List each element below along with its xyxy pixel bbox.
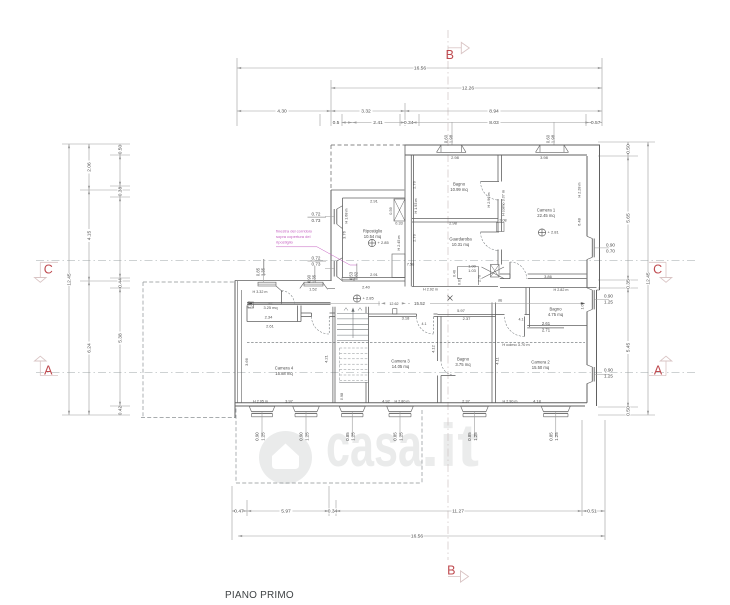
section line B vertical — [447, 30, 449, 560]
dim left d2 — [119, 155, 121, 186]
svg-text:H 3.32 m: H 3.32 m — [253, 290, 268, 294]
wall camera3 north — [369, 313, 417, 315]
svg-text:0.90: 0.90 — [606, 243, 615, 248]
dim 0.50 left d1 — [119, 144, 121, 155]
svg-text:B: B — [447, 564, 455, 578]
dim 0.42 left d7 — [119, 406, 121, 415]
svg-text:1.25: 1.25 — [554, 432, 559, 441]
svg-text:0.90: 0.90 — [299, 432, 304, 441]
dashed balcony rectangle bottom — [235, 409, 237, 484]
svg-text:1.25: 1.25 — [260, 432, 265, 441]
svg-text:C: C — [653, 262, 662, 276]
svg-text:1.25: 1.25 — [351, 432, 356, 441]
wall splay reveals corridor north — [276, 286, 283, 292]
svg-text:2.06: 2.06 — [87, 162, 93, 172]
dim 12.45 left overall — [68, 144, 70, 415]
dim 12.26 top main — [331, 87, 602, 89]
wall bagno3 top — [438, 314, 496, 316]
svg-text:3.75 mq: 3.75 mq — [455, 362, 471, 367]
wall stub camera4 door to stairs — [330, 312, 336, 314]
svg-text:4.92: 4.92 — [382, 399, 391, 404]
svg-text:16.56: 16.56 — [414, 66, 427, 72]
corridor ramp diagonal — [482, 267, 505, 279]
svg-text:2.91: 2.91 — [370, 198, 379, 203]
svg-text:12.26: 12.26 — [462, 86, 475, 92]
svg-text:0.72: 0.72 — [312, 255, 321, 260]
window W-right-2 (0.90/1.25) — [587, 288, 592, 290]
svg-text:2.76: 2.76 — [412, 180, 417, 189]
dim 5.38 left d6 — [119, 288, 121, 406]
svg-text:2.71: 2.71 — [542, 328, 551, 333]
svg-text:3.18: 3.18 — [402, 316, 411, 321]
svg-text:4.12: 4.12 — [431, 344, 436, 353]
svg-text:H 2.45 m: H 2.45 m — [397, 236, 401, 251]
svg-text:2.70: 2.70 — [478, 275, 482, 282]
svg-text:Camera 3: Camera 3 — [391, 359, 410, 364]
niche box wall camera1 — [497, 223, 505, 232]
dim 8.94 top c — [405, 110, 602, 112]
svg-text:0.46: 0.46 — [453, 270, 457, 277]
svg-text:2.76: 2.76 — [412, 233, 417, 242]
svg-text:10.54 mq: 10.54 mq — [364, 234, 382, 239]
svg-text:6.24: 6.24 — [87, 343, 93, 353]
level marker ripostiglio — [368, 239, 375, 246]
wall camera1 bottom — [500, 273, 510, 275]
dim 0.47 bot a — [232, 510, 247, 512]
shaft with X brace — [394, 199, 405, 221]
wall camera3-bagno vertical — [437, 316, 439, 361]
wall corridor north inner ledge — [328, 288, 335, 290]
svg-text:H colmo 3.70 m: H colmo 3.70 m — [502, 342, 529, 347]
wall corridor top middle-right — [412, 286, 498, 288]
svg-text:+ 2.85: + 2.85 — [378, 240, 390, 245]
window W-right-1 (0.90/0.70) — [587, 236, 592, 238]
wall wc box — [246, 306, 248, 322]
dim 5.65 right b — [627, 156, 629, 280]
level marker corridor — [353, 295, 360, 302]
svg-text:15.50 mq: 15.50 mq — [532, 365, 550, 370]
svg-text:5.38: 5.38 — [118, 333, 124, 343]
svg-text:2.98: 2.98 — [451, 155, 460, 160]
svg-text:2.41: 2.41 — [373, 120, 383, 126]
level marker camera1 — [538, 229, 545, 236]
svg-text:10.31 mq: 10.31 mq — [452, 242, 470, 247]
section marker A left — [40, 375, 58, 377]
wall bagno-guardaroba divider — [412, 218, 498, 220]
svg-text:12.45: 12.45 — [646, 272, 652, 285]
svg-text:3.32: 3.32 — [361, 109, 371, 115]
svg-text:Ripostiglio: Ripostiglio — [363, 229, 383, 234]
dim 0.44 left d5 — [119, 278, 121, 288]
svg-text:5.65: 5.65 — [626, 213, 632, 223]
svg-text:H 2.96 m: H 2.96 m — [487, 193, 491, 208]
wall outer left upper block — [330, 145, 332, 190]
dim 0.51 bot e — [582, 510, 605, 512]
svg-text:1.25: 1.25 — [604, 300, 613, 305]
svg-text:4.11: 4.11 — [495, 356, 500, 364]
door bagno 3.75 — [441, 375, 456, 377]
svg-text:0.34: 0.34 — [328, 509, 338, 515]
wall outer top — [331, 144, 405, 146]
svg-text:0.47: 0.47 — [234, 509, 244, 515]
svg-text:3.86: 3.86 — [544, 274, 553, 279]
svg-text:+ 2.81: + 2.81 — [548, 230, 560, 235]
svg-text:H 2.95 m: H 2.95 m — [253, 400, 268, 404]
svg-text:0.85: 0.85 — [467, 432, 472, 441]
extension line corridor west window — [263, 259, 265, 282]
svg-text:0.85: 0.85 — [345, 432, 350, 441]
svg-text:casa: casa — [326, 412, 422, 479]
door camera 4 — [328, 317, 330, 335]
svg-text:7.58: 7.58 — [407, 262, 415, 267]
svg-text:Camera 2: Camera 2 — [531, 360, 550, 365]
wall terrace upper-left divider — [331, 189, 404, 191]
wall corridor niche steps — [457, 267, 459, 279]
svg-text:A: A — [44, 363, 53, 377]
svg-text:0.38: 0.38 — [118, 186, 124, 196]
svg-text:A: A — [654, 363, 663, 377]
svg-text:ripostiglio: ripostiglio — [276, 240, 294, 245]
window W-top-1 (2.98) — [437, 146, 467, 154]
section line C horizontal — [36, 260, 696, 262]
dashed terrace rectangle left — [143, 281, 236, 283]
svg-text:B: B — [446, 48, 454, 62]
svg-text:H 2.92 m: H 2.92 m — [423, 288, 438, 292]
svg-text:2.34: 2.34 — [265, 314, 274, 319]
svg-text:3.66: 3.66 — [244, 357, 249, 366]
svg-text:0.57: 0.57 — [591, 120, 601, 126]
svg-text:8.94: 8.94 — [489, 109, 499, 115]
svg-text:3.25 mq: 3.25 mq — [263, 305, 277, 310]
wall corridor south edge — [247, 302, 331, 304]
dim 0.50 right a — [627, 142, 629, 156]
svg-text:2.40: 2.40 — [362, 285, 371, 290]
svg-text:0.70: 0.70 — [606, 249, 615, 254]
svg-text:3.97: 3.97 — [285, 399, 294, 404]
svg-text:16.56: 16.56 — [411, 534, 424, 540]
window W-right-3 (0.90/1.25) — [587, 365, 592, 367]
svg-text:H 2.90 m: H 2.90 m — [503, 400, 518, 404]
svg-text:3.98: 3.98 — [540, 155, 549, 160]
window W-top-2 (3.98) — [536, 146, 569, 154]
svg-text:0.07: 0.07 — [458, 278, 462, 285]
svg-text:4.1: 4.1 — [519, 318, 524, 322]
svg-text:0.85: 0.85 — [393, 432, 398, 441]
door camera1 from corridor — [509, 262, 511, 279]
svg-text:0.59: 0.59 — [389, 207, 393, 214]
svg-text:2.37: 2.37 — [463, 316, 472, 321]
dim 0.5 top d1 — [342, 122, 353, 124]
svg-text:+ 2.85: + 2.85 — [363, 296, 375, 301]
shaft X box guardaroba corner — [491, 265, 500, 278]
wall ripostiglio top — [343, 197, 406, 199]
dim 2.41 top d2 — [352, 122, 405, 124]
svg-text:4.30: 4.30 — [277, 109, 287, 115]
dim left d4 — [119, 197, 121, 278]
svg-text:H colmo 3.07 m: H colmo 3.07 m — [502, 190, 506, 216]
svg-text:2.98: 2.98 — [449, 221, 458, 226]
svg-text:15.88 mq: 15.88 mq — [275, 371, 293, 376]
svg-text:4.75 mq: 4.75 mq — [548, 312, 564, 317]
svg-text:1.35: 1.35 — [312, 274, 317, 283]
annotation leader line magenta — [276, 246, 317, 248]
svg-text:H 1.68 m: H 1.68 m — [345, 209, 349, 224]
dim 0.34 bot c — [329, 510, 336, 512]
svg-text:Camera 1: Camera 1 — [537, 208, 556, 213]
svg-text:0.60: 0.60 — [545, 134, 550, 143]
dashed ridge line H colmo — [247, 342, 585, 344]
svg-text:0.60: 0.60 — [443, 134, 448, 143]
x mark corridor — [448, 296, 453, 301]
svg-text:10.99 mq: 10.99 mq — [450, 187, 468, 192]
svg-text:4.15: 4.15 — [87, 230, 93, 240]
wall stub wc to camera4 door — [301, 312, 312, 314]
svg-text:12.45: 12.45 — [67, 273, 73, 286]
svg-text:2.37: 2.37 — [462, 399, 471, 404]
small window marks ripostiglio bottom wall — [341, 278, 343, 282]
stairs treads upper solid — [337, 313, 369, 315]
dim 2.06 left a — [88, 144, 90, 190]
svg-text:0.73: 0.73 — [312, 218, 321, 223]
svg-text:1.52: 1.52 — [309, 287, 318, 292]
svg-text:Guardaroba: Guardaroba — [449, 237, 472, 242]
svg-text:0.98: 0.98 — [340, 393, 344, 400]
svg-text:1.98: 1.98 — [551, 134, 556, 143]
svg-text:1.98: 1.98 — [449, 134, 454, 143]
wall bagno3-camera2 vertical — [491, 303, 493, 403]
svg-text:8.03: 8.03 — [489, 120, 499, 126]
svg-text:2.08: 2.08 — [499, 219, 506, 223]
dim 5.45 right d — [627, 288, 629, 407]
svg-text:2.91: 2.91 — [370, 272, 379, 277]
wall bagno4 bottom shelf — [527, 325, 587, 327]
extension lines right — [598, 141, 655, 143]
section marker B bottom — [448, 576, 461, 578]
svg-text:5.97: 5.97 — [457, 308, 466, 313]
svg-text:0.50: 0.50 — [626, 144, 632, 154]
svg-text:dis: dis — [498, 299, 503, 303]
window W-bot-2 — [293, 406, 295, 411]
svg-text:PIANO PRIMO: PIANO PRIMO — [225, 590, 294, 600]
wall camera1 door jamb — [509, 274, 511, 279]
dim 12.45 right overall — [647, 142, 649, 415]
svg-text:finestra del corridoio: finestra del corridoio — [276, 228, 313, 233]
svg-text:1.40: 1.40 — [248, 301, 252, 308]
wall ripostiglio bottom — [342, 277, 405, 279]
door wc from corridor — [281, 291, 283, 305]
wall outer left lower block — [234, 281, 236, 418]
svg-text:Camera 4: Camera 4 — [275, 366, 294, 371]
wc corner hatched box — [248, 302, 254, 308]
dim 6.24 left c — [88, 281, 90, 415]
dim 11.27 bot d — [336, 510, 582, 512]
label 1.03 corridor — [466, 268, 478, 272]
window W-bot-6 — [541, 406, 543, 411]
window corridor north 1 — [258, 282, 276, 286]
svg-text:4.18: 4.18 — [533, 399, 542, 404]
wall corridor north left section — [235, 280, 332, 282]
svg-text:0.5: 0.5 — [333, 120, 340, 126]
dim 0.34 top d3 — [405, 122, 412, 124]
svg-text:0.90: 0.90 — [604, 368, 613, 373]
window W-bot-3 — [339, 406, 341, 411]
dim 5.97 bot b — [247, 510, 329, 512]
svg-text:H 1.93 m: H 1.93 m — [414, 199, 418, 214]
svg-text:0.34: 0.34 — [404, 120, 414, 126]
svg-text:0.51: 0.51 — [587, 509, 597, 515]
svg-text:2.61: 2.61 — [266, 323, 275, 328]
svg-text:H 2.28 m: H 2.28 m — [578, 183, 582, 198]
svg-text:C: C — [44, 262, 53, 276]
window corridor north 2 — [304, 282, 323, 286]
wall bagno4 left vertical — [525, 288, 527, 315]
svg-text:H 2.82 m: H 2.82 m — [554, 288, 569, 292]
svg-text:4.1: 4.1 — [422, 322, 427, 326]
svg-text:0.44: 0.44 — [118, 278, 124, 288]
svg-text:1.25: 1.25 — [398, 432, 403, 441]
svg-text:Bagno: Bagno — [549, 307, 562, 312]
svg-text:0.72: 0.72 — [312, 211, 321, 216]
window W-left-1 (0.72/0.73) — [333, 209, 335, 224]
dim 0.38 left d3 — [119, 186, 121, 197]
svg-text:4.21: 4.21 — [324, 354, 329, 363]
svg-text:.it: .it — [421, 412, 479, 479]
svg-text:0.50: 0.50 — [626, 406, 632, 416]
door bagno upper — [481, 181, 500, 183]
svg-text:3.76: 3.76 — [342, 230, 347, 239]
svg-text:H 2.80 m: H 2.80 m — [395, 400, 410, 404]
svg-text:1.03: 1.03 — [581, 303, 585, 310]
dim 0.35 right c — [627, 280, 629, 288]
svg-text:0.90: 0.90 — [255, 432, 260, 441]
door guardaroba — [481, 231, 500, 233]
wall vertical terrace-bagno x405-413 — [404, 145, 406, 287]
dim 16.56 bot overall — [238, 535, 605, 537]
svg-text:22.45 mq: 22.45 mq — [537, 213, 555, 218]
svg-text:15.52: 15.52 — [414, 301, 426, 306]
wall stairs-camera3 vertical — [365, 307, 367, 313]
dim 4.15 left b — [88, 190, 90, 281]
extension lines left — [62, 143, 130, 145]
wall outer bottom — [235, 402, 587, 404]
svg-text:Bagno: Bagno — [453, 182, 466, 187]
stairs center line with up arrow — [352, 311, 354, 338]
section marker A right — [649, 375, 666, 377]
door camera 3 — [433, 317, 435, 334]
svg-text:11.27: 11.27 — [452, 509, 464, 515]
svg-text:5.45: 5.45 — [626, 342, 632, 352]
wall camera4-stairs vertical — [332, 307, 334, 403]
extension lines top — [236, 58, 238, 126]
section line A horizontal — [36, 372, 696, 374]
svg-text:0.50: 0.50 — [118, 144, 124, 154]
dim 3.32 top b — [331, 110, 405, 112]
section marker C right — [649, 261, 666, 263]
svg-text:2.61: 2.61 — [542, 321, 551, 326]
svg-text:0.73: 0.73 — [312, 262, 321, 267]
window W-bot-4 — [387, 406, 389, 411]
stairs lower flight outline — [339, 348, 341, 383]
svg-text:Bagno: Bagno — [457, 357, 470, 362]
svg-text:0.42: 0.42 — [118, 405, 124, 415]
wall outer right — [586, 156, 588, 236]
svg-text:0.85: 0.85 — [548, 432, 553, 441]
dim 0.50 right e — [627, 407, 629, 415]
label 2.40 corridor — [360, 285, 372, 290]
wall guardaroba-camera1 vertical — [497, 155, 499, 182]
watermark casa.it logo — [259, 431, 312, 484]
svg-text:0.35: 0.35 — [626, 279, 632, 289]
stairs direction ticks top — [344, 308, 348, 311]
door camera 2 — [524, 317, 526, 337]
svg-text:1.25: 1.25 — [304, 432, 309, 441]
svg-text:14.05 mq: 14.05 mq — [392, 364, 410, 369]
window W-bot-1 — [249, 406, 251, 411]
closet box ripostiglio corner — [392, 254, 405, 278]
dim 8.03 top d4 — [412, 122, 589, 124]
dim 0.57 top d5 — [590, 122, 603, 124]
svg-text:0.90: 0.90 — [604, 294, 613, 299]
label 15.52 corridor dimension — [248, 302, 380, 304]
extension lines bottom — [231, 486, 233, 540]
stairs treads lower dashed — [340, 347, 369, 349]
svg-text:1.25: 1.25 — [473, 432, 478, 441]
window W-left-2 (0.72/0.73) — [333, 261, 335, 277]
section marker C left — [40, 261, 58, 263]
svg-text:12.62: 12.62 — [389, 302, 398, 306]
svg-text:sopra copertura del: sopra copertura del — [276, 234, 311, 239]
svg-text:5.97: 5.97 — [281, 509, 291, 515]
section marker B top — [448, 47, 461, 49]
window W-bot-5 — [461, 406, 463, 411]
svg-text:6.48: 6.48 — [577, 217, 582, 226]
dim 4.30 top a — [237, 110, 331, 112]
wall pillar stub camera3 — [393, 309, 397, 314]
dim 16.56 top overall — [237, 67, 602, 69]
svg-text:1.03: 1.03 — [468, 268, 476, 273]
svg-text:0.33: 0.33 — [395, 222, 402, 226]
